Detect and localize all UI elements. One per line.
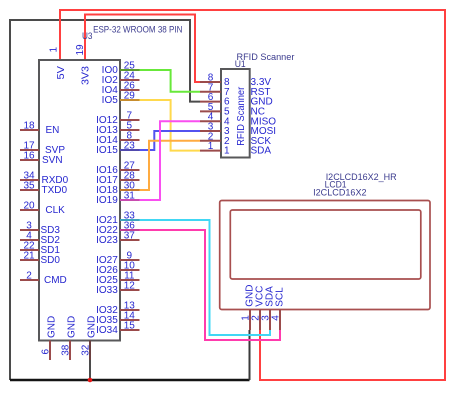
- pin 17 SVP ESP left: [20, 141, 65, 157]
- svg-text:SCL: SCL: [274, 287, 285, 307]
- pin 34 RXD0 ESP left: [20, 171, 69, 187]
- svg-text:IO34: IO34: [96, 325, 118, 336]
- LCD1 screen inner: [230, 210, 420, 279]
- pin 21 SD0 ESP left: [20, 251, 60, 267]
- svg-text:35: 35: [23, 181, 35, 192]
- svg-text:TXD0: TXD0: [42, 185, 68, 196]
- pin 28 IO17 ESP right: [96, 171, 139, 187]
- pin 5 NC RFID U1: [200, 102, 265, 118]
- svg-text:1: 1: [49, 47, 60, 53]
- svg-text:IO33: IO33: [96, 285, 118, 296]
- wire IO18 to RFID SCK orange: [140, 141, 201, 190]
- svg-text:38: 38: [61, 344, 72, 356]
- pin 27 IO16 ESP right: [96, 161, 139, 177]
- pin 6 GND ESP bottom: [41, 316, 58, 360]
- svg-text:IO15: IO15: [96, 145, 118, 156]
- pin 30 IO18 ESP right: [96, 181, 139, 197]
- pin 18 EN ESP left: [20, 121, 59, 137]
- pin 16 SVN ESP left: [20, 151, 63, 167]
- pin 3 SD3 ESP left: [20, 221, 60, 237]
- pin 2 CMD ESP left: [20, 271, 67, 287]
- pin 1 SDA RFID U1: [200, 141, 271, 157]
- pin 26 IO4 ESP right: [102, 81, 140, 97]
- wire ESP pin32 GND drop: [89, 341, 91, 381]
- junction dot GND bus: [88, 378, 93, 383]
- pin 13 IO32 ESP right: [96, 301, 139, 317]
- wire 5V net from ESP pin1 around right side to LCD VCC: [60, 10, 445, 380]
- pin 23 IO15 ESP right: [96, 141, 139, 157]
- pin 4 SCL LCD1: [271, 287, 286, 330]
- svg-text:GND: GND: [86, 316, 97, 338]
- pin 11 IO25 ESP right: [96, 271, 139, 287]
- pin 7 RST RFID U1: [200, 82, 271, 98]
- pin 6 GND RFID U1: [200, 92, 273, 108]
- pin 19 3V3 ESP top: [75, 44, 91, 85]
- pin 24 IO2 ESP right: [102, 71, 140, 87]
- pin 31 IO19 ESP right: [96, 191, 139, 207]
- svg-text:ESP-32 WROOM 38 PIN: ESP-32 WROOM 38 PIN: [93, 23, 182, 34]
- svg-text:GND: GND: [46, 316, 57, 338]
- pin 2 VCC LCD1: [251, 286, 266, 330]
- pin 4 SD2 ESP left: [20, 231, 60, 247]
- wire GND net gray loop from RFID pin6 via top-left down left side: [10, 20, 200, 380]
- pin 1 GND LCD1: [241, 285, 256, 330]
- pin 2 SCK RFID U1: [200, 131, 271, 147]
- pin 36 IO22 ESP right: [96, 221, 139, 237]
- pin 37 IO23 ESP right: [96, 231, 139, 247]
- pin 29 IO5 ESP right: [102, 91, 140, 107]
- svg-text:21: 21: [23, 251, 35, 262]
- svg-text:2: 2: [26, 271, 32, 282]
- svg-text:31: 31: [124, 191, 136, 202]
- RFID Scanner U1 body: [221, 69, 250, 158]
- pin 32 GND ESP bottom: [81, 316, 98, 360]
- pin 14 IO35 ESP right: [96, 311, 139, 327]
- wire IO21 to LCD SDA cyan: [140, 220, 271, 335]
- pin 15 IO34 ESP right: [96, 321, 139, 337]
- svg-text:5V: 5V: [56, 66, 67, 80]
- svg-text:EN: EN: [46, 125, 60, 136]
- pin 1 5V ESP top: [49, 47, 67, 80]
- ESP-32 chip U3 body: [39, 60, 120, 341]
- svg-text:CLK: CLK: [45, 205, 65, 216]
- wire IO19 to RFID MISO magenta: [140, 121, 201, 200]
- svg-text:3V3: 3V3: [81, 66, 92, 85]
- wire IO0 to RFID RST green: [140, 70, 201, 92]
- svg-text:20: 20: [23, 201, 35, 212]
- svg-text:4: 4: [271, 315, 282, 321]
- svg-text:RFID Scanner: RFID Scanner: [236, 86, 247, 146]
- wire IO22 to LCD SCL pink: [140, 230, 281, 340]
- svg-text:15: 15: [124, 321, 136, 332]
- svg-text:SD0: SD0: [41, 255, 61, 266]
- pin 8 3.3V RFID U1: [200, 73, 271, 89]
- svg-text:U1: U1: [235, 58, 246, 69]
- svg-text:37: 37: [124, 231, 136, 242]
- svg-text:12: 12: [124, 281, 136, 292]
- pin 38 GND ESP bottom: [61, 316, 78, 360]
- pin 12 IO33 ESP right: [96, 281, 139, 297]
- svg-text:1: 1: [224, 146, 230, 157]
- svg-text:32: 32: [81, 344, 92, 356]
- wire LCD GND riser: [249, 330, 251, 380]
- svg-text:IO23: IO23: [96, 235, 118, 246]
- svg-text:U3: U3: [82, 30, 93, 41]
- svg-text:29: 29: [124, 91, 136, 102]
- svg-text:IO5: IO5: [102, 95, 119, 106]
- pin 8 IO14 ESP right: [96, 131, 139, 147]
- pin 25 IO0 ESP right: [102, 61, 140, 77]
- pin 22 SD1 ESP left: [20, 241, 60, 257]
- svg-text:IO19: IO19: [96, 195, 118, 206]
- svg-text:SDA: SDA: [251, 146, 272, 157]
- svg-text:16: 16: [23, 151, 35, 162]
- pin 7 IO12 ESP right: [96, 111, 139, 127]
- svg-text:CMD: CMD: [44, 275, 67, 286]
- pin 9 IO27 ESP right: [96, 251, 139, 267]
- pin 3 MOSI RFID U1: [200, 122, 276, 138]
- svg-text:23: 23: [124, 141, 136, 152]
- wire GND bottom bus: [10, 379, 250, 381]
- wire IO5 to RFID SDA yellow: [140, 100, 201, 151]
- svg-text:SVN: SVN: [42, 155, 63, 166]
- pin 20 CLK ESP left: [20, 201, 65, 217]
- pin 10 IO26 ESP right: [96, 261, 139, 277]
- pin 4 MISO RFID U1: [200, 112, 276, 128]
- LCD1 body outer: [220, 201, 430, 310]
- svg-text:6: 6: [41, 349, 52, 355]
- pin 33 IO21 ESP right: [96, 211, 139, 227]
- pin 5 IO13 ESP right: [96, 121, 139, 137]
- svg-text:18: 18: [23, 121, 35, 132]
- wire 3V3 net from ESP pin19 to RFID 3.3V: [85, 15, 200, 83]
- pin 35 TXD0 ESP left: [20, 181, 68, 197]
- svg-text:I2CLCD16X2: I2CLCD16X2: [313, 187, 367, 197]
- wire IO15 to RFID MOSI blue: [140, 131, 201, 150]
- svg-text:19: 19: [75, 44, 86, 56]
- pin 3 SDA LCD1: [261, 286, 276, 330]
- svg-text:GND: GND: [66, 316, 77, 338]
- svg-text:1: 1: [208, 141, 214, 152]
